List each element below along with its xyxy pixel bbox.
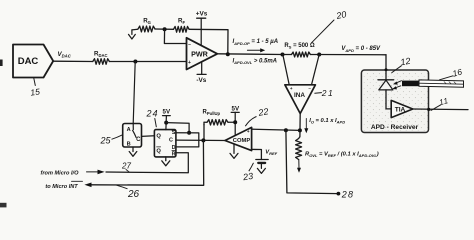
light arrows into photodiode (392, 81, 401, 90)
arrow IO down (304, 119, 308, 134)
svg-text:VAPD = 0 - 85V: VAPD = 0 - 85V (341, 46, 381, 53)
svg-text:C: C (136, 137, 141, 143)
svg-text:+: + (290, 86, 293, 91)
wire INA output down (299, 114, 301, 137)
ground under flip-flop 24 (162, 157, 170, 166)
reference numeral 27 (121, 162, 131, 172)
supply -Vs of PWR (196, 62, 206, 84)
svg-text:ROVL = VREF / (0.1 x IAPD-OVL): ROVL = VREF / (0.1 x IAPD-OVL) (305, 152, 379, 159)
junction set input node (187, 131, 191, 135)
reference numeral 11 (431, 96, 450, 110)
junction RPullUp 5V node (233, 120, 237, 124)
svg-text:IAPD-OVL > 0.5mA: IAPD-OVL > 0.5mA (233, 59, 278, 66)
wire feedback rail RF to output (189, 29, 228, 54)
battery VREF 23 (256, 160, 268, 163)
wire reset input to micro IO (106, 153, 188, 173)
resistor RF (174, 18, 190, 33)
APD receiver module 12 (361, 70, 428, 133)
svg-text:S: S (172, 130, 176, 136)
reference numeral 26 (117, 185, 140, 200)
junction 5V branch node (164, 121, 168, 125)
reference numeral 12 (392, 56, 411, 73)
comparator COMP U22 (225, 127, 252, 150)
switch block 25 (123, 124, 142, 148)
reference numeral 23 (241, 163, 253, 183)
wire RPullUp left to COMP output (203, 124, 205, 141)
svg-text:DAC: DAC (18, 56, 39, 67)
svg-text:–: – (188, 42, 191, 48)
svg-text:21: 21 (321, 88, 334, 98)
wire INA sense input left (283, 55, 289, 85)
svg-text:IAPD-OP = 1 - 5 µA: IAPD-OP = 1 - 5 µA (233, 39, 279, 46)
reference numeral 15 (30, 78, 41, 97)
DAC block U15 (13, 45, 53, 78)
junction node A (133, 60, 137, 64)
wire INA sense input right (312, 55, 320, 85)
node 28 terminal (337, 192, 341, 196)
wire COMP minus input to VREF (252, 149, 262, 159)
junction RS right node (317, 53, 321, 57)
svg-text:COMP: COMP (233, 138, 251, 144)
wire photodiode anode to TIA (386, 90, 391, 109)
wire COMP node down to node 28 (286, 130, 339, 193)
svg-text:C: C (169, 138, 173, 144)
label IO current (309, 118, 345, 125)
wire feedback node to PWR inverting input (164, 29, 186, 43)
svg-text:R: R (172, 152, 176, 158)
wire COMP output to micro INT (92, 140, 204, 185)
svg-text:23: 23 (241, 171, 253, 182)
resistor ROVL (296, 137, 379, 160)
ground under switch 25 (129, 147, 137, 156)
wire INA output to COMP plus input (252, 129, 300, 130)
svg-text:+Vs: +Vs (196, 11, 208, 18)
reference numeral 16 (440, 66, 464, 79)
wire DAC to RDAC (53, 60, 93, 62)
junction RG-RF node (163, 27, 167, 31)
arrow current direction right (247, 48, 265, 52)
supply +Vs of PWR (196, 11, 208, 46)
resistor RS (283, 43, 320, 57)
resistor RDAC (93, 51, 110, 65)
photodiode APD (378, 80, 394, 90)
amplifier INA U21 (285, 85, 316, 114)
svg-text:12: 12 (400, 56, 412, 68)
svg-text:APD - Receiver: APD - Receiver (371, 124, 419, 131)
junction RS left node (281, 53, 285, 57)
label VREF (265, 150, 277, 157)
wire PWR output (217, 53, 282, 56)
reference numeral 22 (245, 106, 269, 126)
supply 5V of flip-flop (163, 109, 171, 130)
supply 5V of COMP (231, 106, 240, 136)
reference numeral 21 (315, 88, 334, 98)
junction INA output node (298, 128, 302, 132)
wire node A down to switch 25 (133, 62, 135, 130)
svg-text:VREF: VREF (265, 150, 277, 157)
reference numeral 20 (312, 9, 348, 43)
reference numeral 28 (341, 190, 354, 200)
svg-text:5V: 5V (232, 106, 240, 113)
wire 5V to set input (166, 123, 189, 133)
label IAPD-OVL current (233, 59, 278, 66)
svg-text:INA: INA (294, 92, 305, 99)
arrow to micro INT (84, 183, 91, 188)
wire VAPD down into module (385, 55, 387, 80)
wire RS to APD high-voltage node (319, 54, 386, 56)
wire TIA output (413, 108, 468, 111)
resistor RPullUp (203, 110, 236, 126)
wire set tied to D input (176, 133, 199, 147)
svg-text:Q: Q (156, 133, 161, 139)
svg-text:Q: Q (156, 149, 161, 155)
svg-text:-Vs: -Vs (196, 77, 206, 84)
svg-text:26: 26 (127, 189, 140, 200)
resistor RG (138, 18, 155, 32)
svg-text:PWR: PWR (191, 50, 209, 59)
svg-text:+: + (188, 60, 191, 66)
svg-text:+: + (247, 129, 250, 134)
label from Micro IO (41, 171, 80, 177)
junction COMP input node (284, 128, 288, 132)
svg-text:D: D (172, 145, 176, 151)
wire Q output to switch C (142, 135, 155, 138)
ground under VREF (257, 163, 265, 174)
junction TIA output at module edge (427, 108, 430, 111)
junction module bias entry (385, 68, 388, 71)
wire COMP output to flip-flop clock (176, 139, 225, 141)
svg-text:to Micro INT: to Micro INT (45, 184, 78, 190)
svg-text:–: – (308, 86, 311, 91)
svg-text:from Micro I/O: from Micro I/O (41, 171, 80, 177)
amplifier TIA 11 (391, 100, 413, 117)
flip-flop 24 (154, 130, 176, 158)
svg-text:25: 25 (99, 136, 111, 146)
svg-text:24: 24 (145, 109, 158, 119)
svg-text:5V: 5V (163, 109, 171, 116)
arrow from micro IO (87, 170, 105, 175)
svg-text:27: 27 (121, 162, 131, 171)
wire RDAC to PWR noninverting input (109, 61, 186, 63)
ground under COMP (230, 144, 238, 159)
label VAPD (341, 46, 381, 53)
op-amp PWR (187, 38, 218, 70)
label VDAC (58, 51, 72, 59)
ground at RG (129, 29, 138, 39)
svg-text:22: 22 (257, 106, 270, 118)
junction PWR output feedback node (226, 52, 230, 56)
svg-text:B: B (127, 142, 131, 148)
svg-text:A: A (127, 127, 131, 133)
junction COMP output node (201, 138, 205, 142)
svg-text:28: 28 (341, 190, 354, 200)
reference numeral 24 (145, 109, 158, 127)
svg-text:RS = 500 Ω: RS = 500 Ω (284, 43, 315, 50)
svg-text:RPullUp: RPullUp (203, 110, 221, 117)
label IAPD-OP current (233, 39, 279, 46)
label to Micro INT (45, 181, 82, 190)
optical fiber 16 (419, 80, 464, 87)
scan mark bottom left (0, 203, 7, 208)
fiber ferrule (402, 81, 419, 87)
svg-text:15: 15 (30, 86, 41, 97)
reference numeral 25 (99, 135, 122, 146)
svg-text:IO = 0.1 x IAPD: IO = 0.1 x IAPD (309, 118, 345, 125)
scan mark left edge (0, 60, 3, 67)
arrow below ROVL (297, 160, 301, 173)
wire RG to RF (155, 28, 174, 30)
svg-text:TIA: TIA (395, 107, 406, 114)
